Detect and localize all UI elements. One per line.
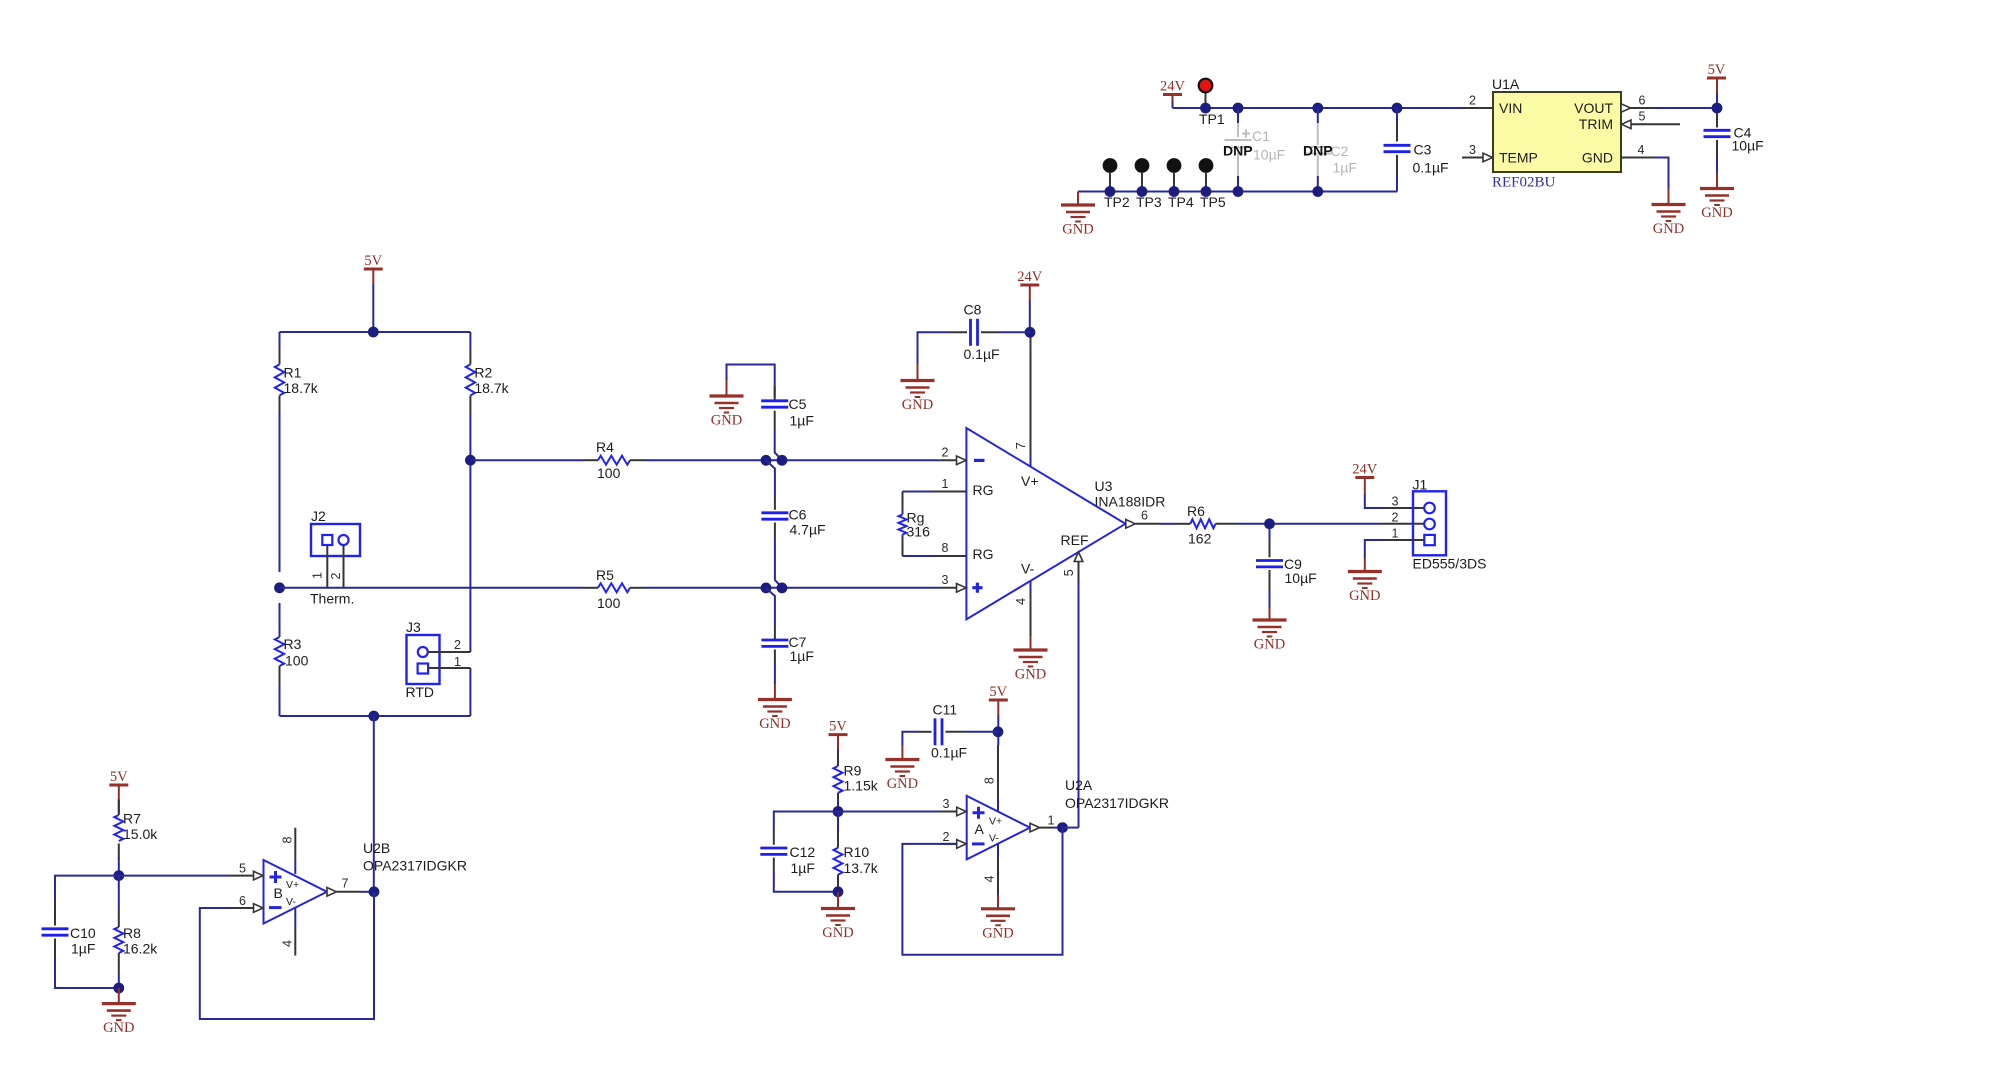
wire U2A feedback loop (902, 828, 1062, 955)
svg-text:15.0k: 15.0k (123, 826, 158, 842)
node: junction R10/C12/GND (833, 886, 844, 897)
svg-text:C12: C12 (790, 844, 816, 860)
wire 5V stem (R9) (837, 735, 839, 750)
svg-text:GND: GND (1582, 150, 1613, 166)
svg-text:7: 7 (342, 877, 349, 891)
capacitor C6 4.7uF (761, 495, 825, 585)
ground GND (TP bus) (1077, 192, 1079, 206)
svg-text:GND: GND (1062, 222, 1093, 238)
capacitor C8 0.1uF (918, 302, 1031, 381)
wire 5V stem to bridge (372, 269, 374, 285)
svg-text:R8: R8 (123, 925, 141, 941)
node: junction R6/C9 (1264, 518, 1275, 529)
wire junction to C12 (774, 812, 838, 831)
svg-text:1: 1 (1392, 527, 1399, 541)
node: junction R9/R10/C12/pin3 (833, 806, 844, 817)
svg-text:24V: 24V (1352, 462, 1378, 478)
node: junction TP2 (1105, 186, 1116, 197)
svg-text:C10: C10 (70, 925, 96, 941)
svg-text:U3: U3 (1095, 478, 1113, 494)
ground GND (R10) (837, 892, 839, 909)
pin 1 J3 (428, 667, 470, 669)
svg-text:C2: C2 (1331, 143, 1349, 159)
node: junction C1 bottom (1233, 186, 1244, 197)
pin 5 REF (1074, 552, 1083, 562)
svg-text:B: B (274, 885, 283, 901)
svg-text:V-: V- (286, 896, 296, 908)
5V power symbol (VOUT) (1707, 62, 1726, 78)
svg-text:J1: J1 (1413, 476, 1428, 492)
svg-text:GND: GND (1254, 637, 1285, 653)
svg-text:10µF: 10µF (1253, 147, 1285, 163)
pin 1 J1 (1382, 539, 1424, 541)
wire 5V stem (1716, 78, 1718, 94)
connector J3 RTD (406, 619, 440, 700)
svg-text:2: 2 (454, 638, 461, 652)
wire bridge bottom rail (280, 715, 471, 717)
op-amp U2B OPA2317IDGKR (264, 840, 468, 924)
svg-text:R4: R4 (596, 439, 614, 455)
5V power symbol (bridge) (364, 253, 383, 269)
test point TP3 (1135, 158, 1162, 210)
resistor R1 18.7k (275, 349, 319, 412)
node: junction R2/R4 (465, 455, 476, 466)
wire C5/C6 jog to C6 (766, 460, 775, 495)
node: junction TP1/top rail (1200, 103, 1211, 114)
24V power symbol (top) (1160, 79, 1186, 95)
svg-text:J3: J3 (406, 619, 421, 635)
node: junction U2A out/REF (1057, 822, 1068, 833)
wire bottom rail (TP ground bus) (1078, 191, 1397, 193)
ground GND (J1 pin1) (1348, 572, 1382, 605)
svg-text:4: 4 (1014, 598, 1028, 605)
svg-text:8: 8 (942, 541, 949, 555)
wire pin5 row (119, 875, 230, 877)
capacitor C9 10uF (1256, 528, 1317, 620)
wire VOUT to 5V node (1653, 107, 1717, 109)
svg-text:GND: GND (1653, 221, 1684, 237)
resistor R2 18.7k (466, 349, 510, 412)
svg-text:V+: V+ (286, 879, 299, 891)
svg-text:1µF: 1µF (1333, 160, 1357, 176)
svg-text:GND: GND (759, 716, 790, 732)
wire junction to C10 (55, 876, 119, 902)
wire right branch vertical (469, 332, 471, 716)
pin 6 output U3 (1126, 520, 1136, 529)
svg-text:316: 316 (907, 524, 931, 540)
wire R5 row (280, 587, 941, 589)
node: junction R8/C10/GND (113, 983, 124, 994)
svg-text:J2: J2 (311, 508, 326, 524)
connector J2 Therm. (310, 508, 360, 607)
test point TP4 (1167, 158, 1194, 210)
svg-text:5V: 5V (989, 684, 1007, 700)
node: junction bottom rail (368, 711, 379, 722)
svg-text:2: 2 (1469, 94, 1476, 108)
svg-text:2: 2 (943, 830, 950, 844)
svg-text:VIN: VIN (1499, 100, 1522, 116)
svg-text:GND: GND (1349, 588, 1380, 604)
pin 2 J2 (343, 545, 345, 588)
node: junction TP4 (1169, 186, 1180, 197)
svg-text:5V: 5V (110, 769, 128, 785)
capacitor C12 1uF (760, 830, 838, 892)
node: junction U2B out (369, 886, 380, 897)
svg-text:TP1: TP1 (1199, 111, 1225, 127)
svg-text:OPA2317IDGKR: OPA2317IDGKR (1065, 795, 1169, 811)
svg-text:TRIM: TRIM (1579, 116, 1613, 132)
pin 1 RG (903, 491, 935, 493)
ground GND (R8) (118, 988, 120, 1004)
svg-text:3: 3 (943, 797, 950, 811)
5V power symbol (R7) (109, 769, 128, 785)
capacitor C4 10uF (1704, 113, 1764, 189)
svg-text:R3: R3 (284, 636, 302, 652)
pin 3 (plus input) (957, 807, 967, 816)
wire left branch vertical (279, 332, 281, 716)
svg-text:C8: C8 (964, 302, 982, 318)
svg-text:R9: R9 (844, 763, 862, 779)
wire pin3 row (838, 811, 940, 813)
svg-text:R5: R5 (596, 567, 614, 583)
svg-text:3: 3 (942, 573, 949, 587)
pin 1 output (1030, 823, 1040, 832)
svg-text:INA188IDR: INA188IDR (1095, 494, 1166, 510)
svg-text:3: 3 (1469, 143, 1476, 157)
svg-text:GND: GND (711, 413, 742, 429)
pin 3 (plus input) (940, 587, 957, 589)
svg-text:0.1µF: 0.1µF (1413, 160, 1449, 176)
capacitor C7 1uF (761, 625, 814, 700)
pin 7 output (327, 888, 337, 897)
node: junction VOUT/5V/C4 (1712, 103, 1723, 114)
capacitor C1 10uF (DNP, gray) (1225, 108, 1286, 192)
capacitor C3 0.1uF (1384, 108, 1449, 192)
pin 8 RG (903, 555, 935, 557)
svg-text:1µF: 1µF (790, 648, 814, 664)
resistor R8 16.2k (114, 876, 158, 988)
resistor R3 100 (275, 635, 309, 685)
wire 5V stem (C11) (997, 700, 999, 716)
svg-text:GND: GND (822, 925, 853, 941)
wire R4 row (470, 459, 940, 461)
svg-text:R1: R1 (284, 365, 302, 381)
svg-text:10µF: 10µF (1732, 138, 1764, 154)
svg-text:V-: V- (989, 833, 999, 845)
5V power symbol (R9) (829, 719, 848, 735)
resistor Rg 316 (899, 492, 931, 557)
svg-text:C1: C1 (1252, 128, 1270, 144)
svg-text:OPA2317IDGKR: OPA2317IDGKR (363, 858, 467, 874)
svg-text:18.7k: 18.7k (474, 380, 509, 396)
resistor R5 100 (583, 567, 646, 611)
svg-text:R6: R6 (1187, 503, 1205, 519)
pin 2 VIN (1463, 107, 1493, 109)
svg-text:4.7µF: 4.7µF (790, 522, 826, 538)
svg-text:100: 100 (597, 595, 621, 611)
svg-text:1: 1 (454, 655, 461, 669)
5V power symbol (C11) (989, 684, 1008, 700)
pin 5 (plus input) (254, 871, 264, 880)
ground GND (U3 pin4) (1030, 636, 1032, 650)
svg-text:2: 2 (329, 572, 343, 579)
wire bridge bottom to U2B output (373, 716, 375, 892)
svg-text:162: 162 (1188, 531, 1212, 547)
svg-text:8: 8 (983, 777, 997, 784)
pin 5 TRIM (1622, 120, 1632, 129)
ground GND (C11) (885, 760, 919, 793)
test point TP2 (1103, 158, 1130, 210)
node: junction TP5 (1201, 186, 1212, 197)
test point TP1 (1199, 79, 1225, 127)
capacitor C5 1uF (761, 386, 814, 458)
svg-text:U2B: U2B (363, 840, 390, 856)
svg-text:24V: 24V (1160, 79, 1186, 95)
test point TP5 (1199, 158, 1226, 210)
svg-text:REF02BU: REF02BU (1492, 175, 1556, 191)
IC U1A REF02BU body (1492, 76, 1621, 191)
svg-text:4: 4 (280, 940, 294, 947)
pin 2 (minus input) (940, 459, 957, 461)
op-amp U2A OPA2317IDGKR (967, 777, 1169, 859)
svg-text:5V: 5V (829, 719, 847, 735)
svg-text:7: 7 (1014, 442, 1028, 449)
ground GND (C8) (901, 381, 935, 414)
svg-text:RG: RG (973, 546, 994, 562)
pin 2 J3 (428, 651, 471, 653)
svg-text:0.1µF: 0.1µF (931, 745, 967, 761)
svg-text:5V: 5V (1708, 62, 1726, 78)
node: junction TP3 (1137, 186, 1148, 197)
svg-text:1µF: 1µF (790, 413, 814, 429)
svg-text:0.1µF: 0.1µF (964, 346, 1000, 362)
op-amp U3 INA188IDR (966, 428, 1165, 619)
svg-text:2: 2 (942, 446, 949, 460)
svg-text:18.7k: 18.7k (284, 380, 319, 396)
wire top rail to VIN (1173, 107, 1464, 109)
svg-text:V+: V+ (1021, 473, 1039, 489)
svg-text:GND: GND (982, 925, 1013, 941)
node: junction 5V/C11/pin8 (993, 726, 1004, 737)
resistor R9 1.15k (834, 752, 879, 812)
svg-text:R2: R2 (474, 365, 492, 381)
pin 7 V+ (1030, 337, 1032, 455)
node: junction R4/C5 jog (761, 455, 772, 466)
svg-text:C11: C11 (933, 702, 958, 718)
svg-text:5: 5 (239, 862, 246, 876)
svg-text:24V: 24V (1017, 269, 1043, 285)
wire 24V to J1 pin3 (1364, 478, 1366, 496)
svg-text:RTD: RTD (406, 684, 435, 700)
svg-text:100: 100 (285, 653, 309, 669)
svg-text:U2A: U2A (1065, 777, 1093, 793)
24V power symbol (J1) (1352, 462, 1378, 478)
svg-text:3: 3 (1392, 495, 1399, 509)
svg-text:DNP: DNP (1223, 143, 1253, 159)
svg-text:VOUT: VOUT (1574, 100, 1613, 116)
svg-text:16.2k: 16.2k (123, 941, 158, 957)
svg-text:1: 1 (311, 572, 325, 579)
svg-text:1µF: 1µF (71, 941, 95, 957)
svg-text:C3: C3 (1414, 142, 1432, 158)
resistor R6 162 (1175, 503, 1238, 547)
svg-text:GND: GND (103, 1020, 134, 1036)
node: junction R1/R5/J2 (274, 582, 285, 593)
pin 2 (minus input) (940, 843, 957, 845)
pin 6 VOUT (1621, 104, 1631, 113)
node: junction 5V/bridge top (368, 327, 379, 338)
pin 6 (minus input) (230, 907, 255, 909)
wire U2A out to REF riser (1063, 827, 1079, 829)
svg-text:C6: C6 (789, 507, 807, 523)
svg-text:GND: GND (887, 776, 918, 792)
wire 24V stem (U3) (1029, 285, 1031, 301)
svg-text:GND: GND (1015, 667, 1046, 683)
node: junction R5/C6 jog (761, 583, 772, 594)
24V power symbol (U3) (1017, 269, 1043, 285)
svg-text:1µF: 1µF (791, 860, 815, 876)
wire R6 to J1 pin2 (1238, 523, 1382, 525)
pin 1 J2 (326, 545, 328, 588)
node: junction C2/top rail (1312, 103, 1323, 114)
node: junction R7/R8/C10/pin5 (113, 870, 124, 881)
wire bridge top rail (280, 331, 471, 333)
connector J1 ED555/3DS (1413, 476, 1487, 571)
svg-text:1.15k: 1.15k (844, 778, 879, 794)
pin 8 power (U2B) (294, 828, 296, 860)
svg-text:ED555/3DS: ED555/3DS (1413, 556, 1487, 572)
svg-text:C5: C5 (789, 396, 807, 412)
pin 3 TEMP (1462, 157, 1483, 159)
svg-text:8: 8 (280, 836, 294, 843)
pin 4 V- (1030, 581, 1032, 592)
svg-text:100: 100 (597, 465, 621, 481)
svg-text:4: 4 (1638, 143, 1645, 157)
svg-text:4: 4 (983, 875, 997, 882)
svg-text:2: 2 (1392, 511, 1399, 525)
resistor R10 13.7k (834, 812, 879, 892)
svg-text:5: 5 (1062, 569, 1076, 576)
svg-text:TEMP: TEMP (1499, 150, 1538, 166)
svg-text:6: 6 (1141, 509, 1148, 523)
capacitor C2 1uF (DNP, gray) (1304, 108, 1357, 192)
node: junction C1/top rail (1233, 103, 1244, 114)
resistor R7 15.0k (114, 800, 158, 876)
svg-text:A: A (975, 821, 985, 837)
node: junction C2 bottom (1312, 186, 1323, 197)
capacitor C11 0.1uF (902, 702, 998, 761)
svg-text:V-: V- (1021, 561, 1035, 577)
pin 4 power (U2A) (997, 844, 999, 858)
svg-text:6: 6 (239, 894, 246, 908)
svg-text:1: 1 (1048, 814, 1055, 828)
pin 4 GND (1621, 157, 1653, 159)
wire C6/C7 jog to C7 (766, 588, 775, 625)
wire 24V stem (1172, 95, 1174, 102)
svg-text:REF: REF (1061, 532, 1089, 548)
svg-text:GND: GND (902, 397, 933, 413)
wire pin4 to ground (1653, 158, 1669, 190)
wire U2B feedback loop (200, 892, 374, 1019)
svg-text:13.7k: 13.7k (844, 860, 879, 876)
svg-text:10µF: 10µF (1285, 570, 1317, 586)
svg-text:RG: RG (973, 482, 994, 498)
node: junction 24V/C8/pin7 (1025, 327, 1036, 338)
ground GND (C5) (710, 396, 744, 429)
ground GND (U1A pin4) (1652, 205, 1686, 238)
ground GND (U2A pin4) (997, 895, 999, 909)
svg-text:5V: 5V (364, 253, 382, 269)
svg-text:6: 6 (1639, 94, 1646, 108)
ground GND (C4) (1700, 189, 1734, 222)
svg-text:1: 1 (942, 477, 949, 491)
ground GND (C9) (1253, 620, 1287, 653)
svg-text:GND: GND (1701, 205, 1732, 221)
svg-text:U1A: U1A (1492, 76, 1520, 92)
pin 8 power (U2A) (997, 745, 999, 798)
ground GND (C7) (758, 700, 792, 733)
svg-text:R7: R7 (123, 811, 141, 827)
svg-text:Therm.: Therm. (310, 591, 354, 607)
wire C5 top to ground (727, 365, 775, 401)
node: junction C3/top rail (1392, 103, 1403, 114)
capacitor C10 1uF (42, 902, 119, 988)
pin 4 power (U2B) (294, 908, 296, 927)
svg-text:V+: V+ (989, 816, 1002, 828)
resistor R4 100 (583, 439, 646, 481)
svg-text:R10: R10 (844, 844, 870, 860)
wire 5V stem (R7) (118, 785, 120, 800)
svg-text:5: 5 (1639, 110, 1646, 124)
svg-text:DNP: DNP (1303, 143, 1333, 159)
